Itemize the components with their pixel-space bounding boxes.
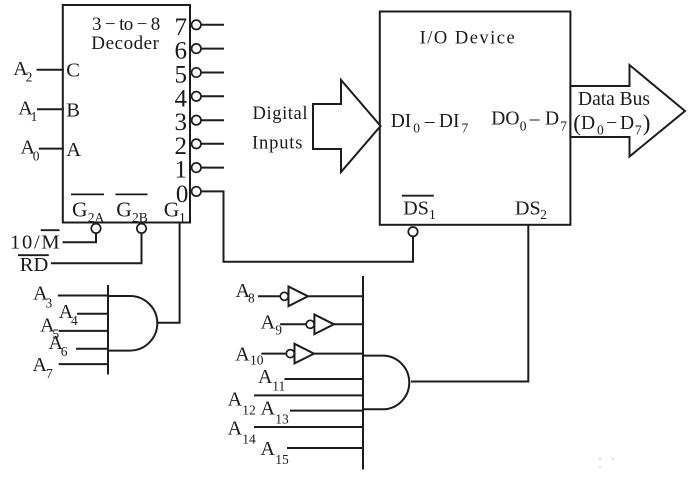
svg-text:2B: 2B [132, 210, 148, 225]
wire A13 [290, 410, 363, 412]
svg-text:15: 15 [275, 452, 289, 467]
svg-text:−: − [606, 113, 617, 134]
label A2 [13, 58, 32, 85]
label A5 [40, 315, 59, 342]
svg-text:–: – [529, 109, 540, 130]
svg-text:2: 2 [26, 70, 33, 85]
output 1 bubble [192, 163, 201, 172]
label (D0-D7) [573, 111, 650, 138]
wire pin 1 stub [201, 167, 224, 169]
wire pin 2 stub [201, 143, 224, 145]
decoder U1 title [91, 14, 160, 54]
label RD-bar [18, 254, 49, 276]
AND gate U3 body [363, 356, 409, 410]
svg-text:D: D [545, 109, 559, 130]
port DS1-bar label [402, 196, 436, 223]
wire A8 to inverter [258, 295, 280, 297]
svg-text:DS: DS [403, 198, 429, 220]
svg-text:–: – [424, 111, 435, 132]
label A13 [261, 397, 290, 426]
wire A10 to inverter [261, 353, 286, 355]
wire pin 6 stub [201, 48, 224, 50]
label A7 [33, 354, 54, 381]
svg-text:Decoder: Decoder [91, 33, 159, 54]
svg-text:Inputs: Inputs [252, 134, 303, 154]
label Digital Inputs [252, 104, 308, 154]
svg-text:7: 7 [635, 122, 642, 137]
svg-text:7: 7 [560, 118, 567, 133]
wire inverter A9 to bar [334, 323, 363, 325]
wire inverter A10 to bar [314, 353, 363, 355]
svg-text:0: 0 [33, 148, 40, 163]
digital inputs arrow [313, 80, 381, 172]
wire A5 [59, 330, 108, 332]
svg-text:A: A [261, 438, 276, 460]
wire A2 to C [37, 69, 64, 71]
svg-text:A: A [228, 418, 243, 440]
svg-text:G: G [164, 198, 180, 222]
decoder U1 box [63, 5, 190, 223]
svg-text:1: 1 [429, 207, 436, 222]
svg-text:1: 1 [175, 157, 188, 184]
svg-text:0: 0 [520, 118, 527, 133]
svg-text:14: 14 [242, 432, 256, 447]
svg-text:A: A [228, 389, 243, 411]
svg-text:RD: RD [20, 254, 48, 276]
wire pin 7 stub [201, 24, 224, 26]
wire pin 0 to DS1 node [201, 191, 413, 261]
svg-text:D: D [620, 113, 634, 134]
svg-text:DI: DI [391, 111, 412, 132]
svg-text:G: G [116, 198, 132, 222]
enable G2A label [71, 194, 105, 224]
G2A bubble [91, 224, 100, 233]
wire RD to G2B [51, 233, 142, 264]
svg-text:3 − to − 8: 3 − to − 8 [92, 14, 160, 35]
output 7 bubble [192, 20, 201, 29]
svg-text:8: 8 [248, 291, 255, 306]
label A0 [21, 137, 40, 164]
svg-text:0: 0 [597, 122, 604, 137]
wire A7 [59, 363, 108, 365]
svg-text:Digital: Digital [253, 104, 308, 124]
inverter A8 bubble [280, 292, 288, 300]
wire A4 [77, 313, 108, 315]
svg-text:2A: 2A [88, 210, 105, 225]
output 0 bubble [192, 187, 201, 196]
label A9 [261, 312, 283, 338]
svg-text:A: A [261, 312, 276, 334]
svg-text:DO: DO [491, 109, 519, 130]
port DI0-DI7 label [391, 111, 469, 136]
svg-text:DI: DI [439, 111, 460, 132]
label A6 [49, 332, 68, 359]
wire A3 [58, 295, 108, 297]
svg-text:1: 1 [179, 210, 186, 225]
wire A6 [76, 348, 108, 350]
inverter A9 triangle [314, 315, 334, 335]
port DS2 label [515, 198, 547, 223]
svg-text:11: 11 [272, 378, 285, 393]
inverter A9 bubble [306, 320, 314, 328]
wire A15 [287, 447, 363, 449]
enable G1 label [164, 198, 186, 225]
output 6 bubble [192, 44, 201, 53]
svg-text:7: 7 [46, 366, 53, 381]
svg-text:13: 13 [275, 411, 289, 426]
wire inverter A8 to bar [308, 295, 363, 297]
svg-text:3: 3 [46, 295, 53, 310]
AND gate U2 input bar [107, 285, 109, 375]
wire pin 5 stub [201, 72, 224, 74]
AND gate U2 body [108, 296, 157, 351]
svg-text:1: 1 [31, 109, 38, 124]
output 4 bubble [192, 92, 201, 101]
svg-text:C: C [66, 60, 80, 82]
label A14 [228, 418, 256, 447]
wire DS2 to AND U3 output [411, 225, 528, 382]
output 2 bubble [192, 139, 201, 148]
wire U2 output to G1 [157, 223, 179, 323]
label A3 [33, 283, 52, 311]
svg-text:Data Bus: Data Bus [578, 89, 650, 110]
wire A11 [285, 378, 364, 380]
label A8 [236, 280, 256, 306]
svg-text:0: 0 [413, 121, 420, 136]
inverter A10 triangle [295, 344, 315, 364]
svg-text:A: A [261, 397, 276, 419]
svg-text:G: G [72, 198, 88, 222]
label IO/M-bar [10, 230, 60, 253]
svg-text:DS: DS [515, 198, 541, 220]
svg-text:A: A [66, 139, 81, 161]
svg-text:7: 7 [462, 121, 469, 136]
inverter A8 triangle [289, 287, 309, 307]
label A10 [235, 344, 263, 368]
inverter A10 bubble [286, 350, 294, 358]
svg-text:A: A [258, 366, 273, 388]
data bus arrow [570, 65, 685, 157]
svg-text:12: 12 [242, 402, 256, 417]
svg-text:(: ( [573, 111, 581, 136]
wire A14 [254, 426, 363, 428]
svg-text:10/M: 10/M [10, 232, 60, 254]
svg-text:I/O Device: I/O Device [420, 28, 515, 48]
wire A1 to B [37, 108, 64, 110]
output 5 bubble [192, 68, 201, 77]
wire A0 to A [39, 148, 64, 150]
AND gate U3 input bar [362, 276, 364, 470]
output 3 bubble [192, 116, 201, 125]
label A15 [261, 438, 290, 467]
wire pin 3 stub [201, 119, 224, 121]
label A11 [258, 366, 285, 394]
svg-text:6: 6 [61, 344, 68, 359]
label A4 [59, 301, 78, 328]
G2B bubble [137, 224, 146, 233]
port DO0-D7 label [491, 109, 567, 134]
wire IO/M to G2A [63, 233, 97, 243]
enable G2B label [116, 194, 148, 224]
label A12 [228, 389, 256, 418]
svg-text:A: A [235, 344, 250, 366]
wire pin 4 stub [201, 95, 224, 97]
wire A9 to inverter [280, 323, 306, 325]
DS1 bubble [408, 227, 417, 236]
svg-text:): ) [643, 111, 651, 136]
wire A12 [254, 394, 363, 396]
I/O device box [380, 12, 571, 225]
svg-text:2: 2 [540, 207, 547, 222]
label A1 [18, 97, 37, 124]
svg-text:4: 4 [71, 313, 78, 328]
svg-text:D: D [581, 113, 595, 134]
svg-text:B: B [66, 100, 80, 122]
